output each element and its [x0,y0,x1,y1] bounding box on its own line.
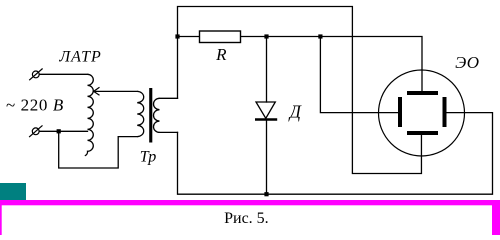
svg-text:Тр: Тр [140,149,157,166]
svg-text:R: R [215,45,227,64]
svg-text:ЭО: ЭО [455,53,479,72]
svg-text:Д: Д [288,101,302,121]
svg-text:Рис. 5.: Рис. 5. [224,210,269,227]
svg-text:~ 220 В: ~ 220 В [6,95,64,114]
svg-text:ЛАТР: ЛАТР [58,49,101,66]
